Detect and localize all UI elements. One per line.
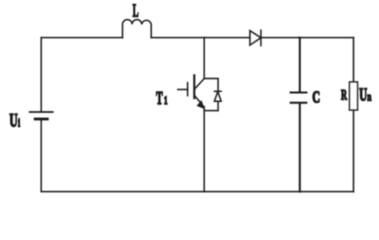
diode D cathode bar bbox=[260, 30, 262, 45]
wire: left rail lower (source bottom lead) bbox=[40, 121, 42, 192]
wire: top rail left segment from left corner to inductor bbox=[41, 37, 122, 39]
svg-text:T: T bbox=[156, 89, 163, 109]
svg-text:L: L bbox=[133, 1, 139, 21]
body bar bbox=[193, 75, 195, 98]
transistor T1 (IGBT) bbox=[178, 75, 205, 109]
wire: T1 collector lead from top rail bbox=[203, 38, 205, 79]
collector slant bbox=[195, 79, 204, 89]
label Ui bbox=[9, 111, 20, 131]
anti-parallel diode of T1: top branch wire bbox=[204, 79, 218, 91]
svg-text:1: 1 bbox=[164, 94, 168, 107]
svg-text:C: C bbox=[312, 90, 320, 108]
label T1 bbox=[156, 89, 168, 109]
svg-text:R: R bbox=[341, 86, 347, 103]
svg-text:U: U bbox=[9, 111, 17, 131]
anti-parallel diode: bottom branch wire bbox=[204, 101, 218, 110]
resistor R (box) bbox=[350, 82, 358, 110]
wire: resistor branch lower lead bbox=[353, 110, 355, 192]
wire: T1 emitter lead to bottom rail bbox=[203, 107, 205, 192]
gate bar bbox=[187, 83, 189, 96]
inductor L bbox=[123, 20, 152, 38]
wire: top rail middle segment from inductor to diode D bbox=[151, 37, 250, 39]
emitter arrowhead bbox=[197, 100, 205, 109]
wire: bottom rail bbox=[41, 191, 353, 193]
svg-text:U: U bbox=[359, 86, 367, 105]
gate lead bbox=[178, 89, 188, 91]
capacitor C bottom plate bbox=[291, 102, 307, 104]
wire: capacitor branch lower lead bbox=[299, 104, 301, 192]
wire: left rail upper (source top lead) bbox=[40, 38, 42, 112]
battery Ui positive plate (long) bbox=[30, 111, 53, 113]
svg-text:n: n bbox=[367, 91, 371, 104]
wire: capacitor branch upper lead bbox=[299, 38, 301, 92]
label Un (output voltage) bbox=[359, 86, 371, 105]
battery Ui negative plate (short thick) bbox=[35, 118, 47, 121]
anti-parallel diode cathode bar bbox=[215, 90, 222, 92]
emitter slant bbox=[195, 96, 201, 103]
wire: resistor branch upper lead bbox=[353, 38, 355, 82]
capacitor C top plate bbox=[291, 92, 307, 94]
wire: top rail right segment from diode to right corner bbox=[261, 37, 354, 39]
svg-text:i: i bbox=[18, 117, 20, 130]
diode D (series, pointing right) bbox=[250, 31, 261, 45]
anti-parallel diode triangle (pointing up) bbox=[214, 92, 221, 102]
